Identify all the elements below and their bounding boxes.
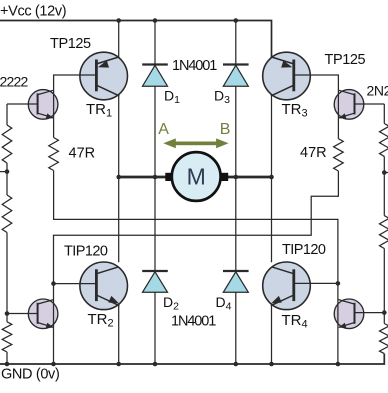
node Vcc-TR1 junction: [116, 18, 121, 23]
wire left chain lower: [6, 352, 8, 364]
wire TR2 base: [54, 283, 97, 285]
svg-text:A: A: [158, 121, 169, 138]
wire Q3 base: [7, 313, 38, 315]
wire TR1 base from Q1 collector: [54, 75, 97, 138]
svg-text:TP125: TP125: [325, 52, 366, 68]
node Vcc-D1 junction: [153, 18, 158, 23]
svg-text:+Vcc (12v): +Vcc (12v): [0, 4, 66, 20]
node motor-D3 junction: [234, 175, 239, 180]
wire TR1 collector to motor: [118, 96, 120, 177]
svg-text:47R: 47R: [69, 146, 96, 162]
transistor Q1 symbol: [38, 90, 54, 119]
node input-A junction: [5, 169, 10, 174]
wire GND bottom rail: [0, 354, 384, 364]
svg-text:2N2: 2N2: [367, 83, 388, 99]
transistor TR4 symbol: [271, 267, 294, 306]
wire TR2 collector to motor: [118, 177, 120, 262]
wire D1-D2 branch: [154, 21, 156, 365]
wire Q4 base: [355, 312, 385, 314]
diode D4: [223, 271, 249, 292]
resistor left R2: [2, 195, 12, 233]
svg-text:TIP120: TIP120: [282, 242, 326, 258]
motor M body: [165, 152, 228, 201]
transistor Q3 body (2N2222 bottom-left): [28, 299, 58, 329]
wire left input stub: [0, 171, 7, 173]
wire cross line A (Q1 emitter to TR4 base): [54, 171, 338, 284]
wire right input stub: [384, 172, 388, 174]
resistor right R6: [380, 324, 388, 354]
wire cross line B (Q2 emitter to TR2 base): [54, 171, 339, 284]
wire D3-D4 branch: [235, 21, 237, 365]
node gnd-left junction: [5, 362, 10, 367]
transistor TR1 symbol: [96, 57, 119, 96]
resistor left R1: [2, 125, 12, 163]
wire TR2 emitter to GND: [118, 306, 120, 365]
wire TR1 emitter to rail: [118, 21, 120, 58]
resistor right R4: [380, 124, 388, 157]
node motor-D1 junction: [153, 175, 158, 180]
wire right chain upper: [383, 104, 385, 124]
wire motor horizontal: [119, 176, 272, 179]
wire TR4 base: [294, 282, 338, 284]
svg-text:M: M: [187, 163, 206, 189]
diode D3: [223, 65, 249, 87]
wire TR3 base from Q2 collector: [294, 75, 339, 139]
diode D2: [142, 271, 168, 292]
node gnd-D4 junction: [234, 362, 239, 367]
wire TR4 collector to motor: [271, 177, 273, 262]
resistor left R3: [2, 322, 12, 352]
diode D1: [142, 65, 168, 87]
node Vcc-D3 junction: [234, 18, 239, 23]
node TR2-base junction: [51, 281, 56, 286]
svg-text:TP125: TP125: [50, 36, 91, 52]
node input-B junction: [382, 170, 387, 175]
node gnd-D2 junction: [153, 362, 158, 367]
svg-text:1N4001: 1N4001: [172, 58, 217, 74]
resistor 47R right: [334, 139, 344, 171]
svg-text:TIP120: TIP120: [64, 244, 108, 260]
svg-text:B: B: [220, 121, 231, 138]
wire right chain mid1: [383, 156, 385, 215]
direction arrow A-B: [163, 138, 228, 148]
wire left chain upper: [6, 104, 8, 125]
wire Q4 collector/emitter vertical: [337, 283, 339, 364]
transistor Q1 body (2N2222 top-left): [28, 90, 58, 120]
wire left chain mid1: [6, 163, 8, 195]
wire Q1 base: [7, 103, 38, 105]
node gnd-TR4e junction: [269, 362, 274, 367]
transistor TR3 symbol: [271, 57, 294, 96]
wire TR4 emitter to GND: [271, 306, 273, 365]
wire right chain mid2: [383, 249, 385, 324]
node motor-right junction: [269, 175, 274, 180]
svg-text:47R: 47R: [300, 145, 327, 161]
svg-text:1N4001: 1N4001: [171, 314, 216, 330]
wire Q3 collector/emitter vertical: [53, 284, 55, 364]
wire TR3 collector to motor: [271, 96, 273, 177]
wire left chain mid2: [6, 233, 8, 322]
node TR4-base junction: [336, 281, 341, 286]
transistor Q2 symbol: [338, 90, 354, 119]
node Q3-base junction: [5, 311, 10, 316]
transistor Q4 symbol: [338, 300, 354, 329]
resistor 47R left: [49, 138, 59, 171]
wire +Vcc top rail: [0, 21, 272, 59]
transistor Q4 body (2N2222 bottom-right): [334, 299, 364, 329]
node Q4-base junction: [382, 310, 387, 315]
svg-text:2222: 2222: [0, 73, 28, 89]
node gnd-Q4e junction: [336, 362, 341, 367]
transistor TR3 body: [263, 52, 311, 100]
transistor TR1 body: [80, 52, 128, 100]
transistor TR4 body: [263, 262, 311, 310]
node gnd-TR2e junction: [116, 362, 121, 367]
wire Q2 base: [355, 103, 385, 105]
transistor TR2 body: [80, 262, 128, 310]
svg-text:GND (0v): GND (0v): [1, 367, 59, 383]
node gnd-Q3e junction: [51, 362, 56, 367]
node motor-left junction: [116, 175, 121, 180]
transistor TR2 symbol: [96, 267, 119, 306]
transistor Q2 body (2N2222 top-right): [334, 90, 364, 120]
resistor right R5: [380, 216, 388, 249]
transistor Q3 symbol: [38, 300, 54, 329]
